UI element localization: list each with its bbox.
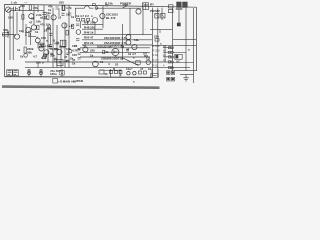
wire bus row y29 [82, 28, 103, 30]
svg-text:10k: 10k [66, 47, 71, 51]
svg-text:SW: SW [155, 9, 160, 13]
wire bottom hang x41 [40, 69, 42, 77]
svg-text:4.7k: 4.7k [66, 6, 72, 10]
resistor R7 [22, 15, 24, 20]
resistor R30 [155, 39, 159, 41]
pot body VR1 [3, 33, 9, 36]
capacitor C7 [35, 38, 40, 43]
wire frame top right [103, 6, 197, 8]
wire diagonal mid [123, 58, 139, 66]
resistor R11 [72, 24, 74, 29]
svg-text:0.22: 0.22 [41, 56, 47, 60]
diode D1 [43, 17, 48, 19]
capacitor C1 [12, 7, 19, 11]
svg-text:R 100: R 100 [153, 44, 160, 48]
resistor R40 [138, 71, 141, 74]
svg-text:+O MAIN AMP: +O MAIN AMP [58, 79, 77, 83]
relay RY1 [143, 3, 149, 10]
resistor R9 [37, 25, 39, 30]
wire vertical x80 [80, 21, 82, 28]
svg-text:R47 100: R47 100 [84, 20, 95, 24]
transistor Q17 [132, 44, 137, 49]
capacitor C21 [133, 72, 136, 75]
comp on top frame [93, 3, 96, 5]
capacitor C3 [68, 13, 72, 15]
switch S1 [155, 13, 165, 18]
small cap circle x70 [69, 50, 72, 53]
svg-text:R 1k: R 1k [153, 53, 159, 57]
svg-text:2k: 2k [47, 26, 51, 30]
svg-text:1k: 1k [66, 12, 70, 16]
svg-text:47: 47 [83, 44, 87, 48]
wire vertical x34 [33, 5, 35, 25]
svg-text:1W: 1W [104, 50, 109, 54]
power transistor Q16 [112, 48, 119, 55]
connector dots right [171, 47, 173, 69]
wire vertical x57 [56, 25, 58, 68]
svg-text:47: 47 [64, 55, 68, 59]
wire bottom hang x29 [28, 69, 30, 77]
svg-text:10: 10 [100, 60, 104, 64]
svg-text:100p: 100p [38, 42, 45, 46]
cap marks col78 [78, 48, 81, 59]
svg-text:33k: 33k [50, 54, 55, 58]
wire vertical x48 [47, 25, 49, 62]
wire vertical x75 [75, 8, 77, 18]
svg-text:4k: 4k [77, 48, 81, 52]
transistor Q2 [51, 15, 56, 20]
svg-text:22: 22 [58, 15, 62, 19]
dense cluster bars B [54, 46, 66, 49]
wire bus row y24 [82, 23, 103, 25]
capacitor C5 [55, 7, 58, 9]
wire bottom x158 [157, 69, 159, 77]
svg-text:10k: 10k [36, 20, 41, 24]
wire frame top [5, 4, 104, 5]
svg-text:1k: 1k [35, 30, 39, 34]
bottom hang component x41 [40, 72, 43, 75]
svg-text:F: F [178, 23, 180, 27]
wire vertical x143 [142, 3, 144, 35]
dense cluster bars A [40, 45, 52, 47]
elec cap plus marks [36, 36, 38, 38]
wire vertical x10 [9, 11, 11, 60]
row end comp y52 [168, 51, 170, 53]
svg-text:1k: 1k [17, 48, 21, 52]
fuse box bottom [151, 74, 159, 78]
row end comp y47 [168, 47, 170, 49]
wire vertical x172 [172, 8, 174, 71]
wire bus top mid [75, 6, 141, 8]
hang resistor x41 [40, 70, 42, 73]
svg-text:100: 100 [8, 15, 13, 19]
connector CN5 [168, 5, 173, 13]
text labels right rows [153, 44, 167, 68]
svg-text:22k: 22k [36, 60, 41, 64]
wire vertical x130 [129, 8, 131, 35]
wire vertical x157 [157, 8, 159, 77]
svg-text:2k: 2k [70, 56, 74, 60]
wire vertical x103 [102, 6, 104, 28]
small comp x19 top [18, 7, 20, 11]
transistor Q13 [57, 49, 62, 54]
cap C3b [61, 13, 64, 15]
wire frame left [4, 4, 6, 76]
wire vertical x30 [30, 33, 32, 45]
svg-text:1k: 1k [48, 8, 52, 12]
node A [95, 7, 98, 10]
transistor Q14 [83, 47, 88, 52]
svg-text:2SB688 2SD718: 2SB688 2SD718 [101, 56, 123, 60]
wire bus y10 left [11, 10, 44, 12]
arrowhead pot [7, 31, 9, 33]
transistor Q5 [14, 34, 19, 39]
relay box RY2 [60, 40, 66, 46]
wire bottom x152 [151, 69, 153, 77]
wire bus right y29 [150, 29, 172, 31]
transistor Q10 [126, 40, 131, 45]
wire bus row y34 [82, 33, 152, 35]
wire right y62 ext [173, 61, 194, 63]
svg-text:100u: 100u [50, 72, 57, 76]
wire vertical x38 [37, 5, 39, 12]
fuse box marks [152, 74, 157, 76]
wire bus right bot1 [174, 70, 197, 72]
transistor Q6 [26, 27, 31, 32]
transistor Q8 [62, 23, 67, 28]
wire vertical x165 [164, 45, 166, 62]
svg-text:2SC1815GR 4.7k: 2SC1815GR 4.7k [104, 36, 127, 40]
wire x38 low [37, 62, 39, 68]
tick x107 bottom [105, 73, 108, 74]
svg-text:1k: 1k [59, 45, 63, 49]
relay box inner [62, 40, 65, 46]
gray band [2, 85, 160, 89]
small box bottom x100 [99, 70, 104, 74]
svg-text:b: b [25, 30, 27, 34]
wire vertical x59 [58, 8, 60, 16]
svg-text:0.22 5W: 0.22 5W [101, 45, 112, 49]
resistor R1 [29, 5, 31, 10]
wire bus right bot2 [180, 74, 194, 76]
transistor Q9 [126, 35, 131, 40]
wire vertical x87 [87, 21, 89, 24]
wire vertical x17 [16, 12, 18, 33]
bottom cluster boxes [109, 71, 122, 74]
wire vertical x152 [152, 8, 154, 77]
wire frame bottom [5, 76, 153, 79]
svg-text:RY: RY [150, 3, 154, 7]
capacitor C9 [76, 30, 81, 35]
transistor Q3 [100, 13, 105, 18]
svg-text:47: 47 [64, 59, 68, 63]
transistor Q1 [29, 14, 34, 19]
wire bus right y45 [152, 44, 196, 46]
wire vertical x95b [94, 23, 96, 35]
cap circle x25 [24, 54, 28, 58]
svg-text:n: n [46, 39, 48, 43]
component row mid top [77, 18, 98, 23]
connector CN6 [175, 54, 182, 59]
dense cluster bars C [50, 53, 69, 55]
svg-text:1k: 1k [148, 67, 152, 71]
comp marks x126 [126, 50, 129, 51]
row end comp y62 [168, 61, 170, 63]
svg-text:1k 10k: 1k 10k [50, 47, 59, 51]
svg-text:R 220: R 220 [153, 49, 160, 53]
svg-text:R 15k: R 15k [105, 1, 113, 5]
wire bus row y47 [80, 46, 171, 48]
svg-text:4.7: 4.7 [33, 55, 37, 59]
transistor Q18 [146, 60, 150, 64]
svg-text:47: 47 [126, 48, 130, 52]
svg-text:POWER: POWER [120, 2, 132, 6]
capacitor C6 [49, 33, 52, 35]
resistor R8 [47, 15, 49, 20]
svg-text:10k: 10k [134, 38, 139, 42]
input jack J1 [6, 7, 11, 12]
marks on top frame [105, 5, 108, 6]
svg-text:1k: 1k [72, 61, 76, 65]
svg-text:0.5: 0.5 [143, 52, 147, 56]
svg-text:220: 220 [90, 49, 95, 53]
transistor Q7 [31, 25, 36, 30]
svg-text:BL 47k: BL 47k [106, 16, 116, 20]
resistor R5 [62, 5, 64, 10]
text labels group [3, 0, 190, 83]
wire bottom hang x120 [119, 69, 121, 77]
ground [183, 75, 188, 81]
switch S1 marks [155, 14, 164, 18]
wire bottom hang x62 [61, 69, 63, 77]
svg-text:47: 47 [29, 20, 33, 24]
svg-text:47k: 47k [33, 6, 38, 10]
tick x160 [159, 30, 161, 33]
speaker terminal SP2 [167, 77, 175, 81]
svg-text:R 4.7: R 4.7 [153, 58, 160, 62]
wire bus row y67 [25, 67, 190, 69]
svg-text:47: 47 [140, 67, 144, 71]
box bottom x60 [60, 70, 64, 75]
box bottom x60 inner [61, 72, 63, 73]
wire vertical x23 [22, 5, 24, 33]
svg-text:1k: 1k [20, 55, 24, 59]
resistor R10 [66, 30, 68, 35]
wire vertical x162 [161, 8, 163, 20]
wire vertical x69 [68, 5, 70, 68]
svg-text:0.5: 0.5 [97, 45, 101, 49]
capacitor C20 [127, 72, 130, 75]
wire bus row y40 [82, 39, 152, 41]
transistor Q12 [44, 50, 49, 55]
wire bus row y57 [80, 56, 171, 58]
wire bus row y62 [25, 61, 171, 63]
svg-text:1Ω: 1Ω [146, 56, 151, 60]
resistor R12 [24, 47, 26, 53]
left corner mark box2 [13, 70, 19, 76]
IC box U1 inner [58, 61, 61, 63]
wire bus row y52 [80, 51, 171, 53]
caption box [53, 78, 58, 83]
left corner mark box1 [7, 70, 13, 76]
svg-text:R49 1k: R49 1k [84, 31, 94, 35]
wire bus right y39 [173, 38, 196, 40]
svg-text:+: + [131, 66, 133, 70]
svg-text:1k: 1k [71, 15, 75, 19]
pot leads [8, 35, 16, 38]
svg-text:1k 4.7 2.2: 1k 4.7 2.2 [76, 14, 89, 18]
box x63 top [63, 5, 65, 10]
svg-text:1k: 1k [121, 45, 125, 49]
capacitor C2 [43, 12, 47, 14]
wire bottom bus x100 [100, 69, 122, 71]
dense cluster bars D [54, 58, 69, 61]
row end comp y57 [168, 56, 170, 58]
box mid lower [136, 61, 140, 65]
IC box U1 [57, 60, 63, 66]
wire cap C7 down [37, 43, 39, 48]
svg-text:56k: 56k [27, 51, 32, 55]
svg-text:PCB: PCB [77, 79, 83, 83]
volume pot VR1 [2, 31, 14, 34]
wire vertical x193 [193, 8, 195, 83]
bottom hang component x29 [28, 72, 31, 75]
transistor Q15 [93, 61, 99, 67]
wire vertical x44 [43, 5, 45, 45]
small cap circle x44 [43, 56, 46, 59]
transformer T1 [176, 2, 187, 9]
wire bus row y45 [82, 44, 152, 46]
fuse F1 [177, 23, 180, 26]
svg-text:VOL: VOL [3, 28, 9, 32]
relay RY1 divider [145, 3, 147, 10]
marks left corner bottom [8, 71, 18, 75]
row end comp y67 [168, 66, 170, 68]
svg-text:220: 220 [59, 0, 64, 4]
wire vertical x186 [185, 8, 187, 71]
wire vertical x179 [178, 10, 180, 26]
wire vertical x61 [60, 46, 62, 68]
resistor R41 [143, 71, 146, 74]
wire frame right [196, 7, 198, 70]
svg-text:1k: 1k [90, 53, 94, 57]
power switch SW [122, 6, 127, 9]
wire Q16 down [115, 56, 117, 57]
wire vertical x13 [12, 11, 14, 60]
transistor Q11 [39, 46, 44, 51]
comp x103 mid [103, 50, 105, 53]
svg-text:L-ch: L-ch [11, 1, 17, 5]
svg-text:R48 220: R48 220 [84, 25, 95, 29]
svg-text:R 10: R 10 [153, 64, 159, 68]
wire vertical x65 [64, 23, 66, 68]
svg-text:·: · [145, 27, 146, 31]
wire bottom hang x110 [110, 69, 112, 77]
wire vertical x53 [52, 8, 54, 68]
svg-text:10: 10 [54, 59, 58, 63]
hang resistor x29 [28, 70, 30, 73]
transistor Q4 [136, 9, 141, 14]
svg-text:R50 47: R50 47 [84, 36, 94, 40]
dense cluster marks [39, 46, 52, 57]
wire vertical x122 [122, 24, 124, 60]
wire vertical x50 [50, 25, 52, 45]
wire pot out [28, 36, 36, 38]
svg-text:+B: +B [69, 24, 73, 28]
svg-text:22: 22 [115, 63, 119, 67]
svg-text:220: 220 [20, 4, 25, 8]
cap marks col75 [76, 24, 79, 40]
svg-text:22: 22 [28, 33, 32, 37]
wire right y52 ext [173, 51, 186, 53]
speaker terminal SP1 [167, 71, 175, 75]
svg-text:220: 220 [154, 34, 159, 38]
svg-text:10k: 10k [19, 29, 24, 33]
wire vertical x26 [25, 24, 27, 45]
